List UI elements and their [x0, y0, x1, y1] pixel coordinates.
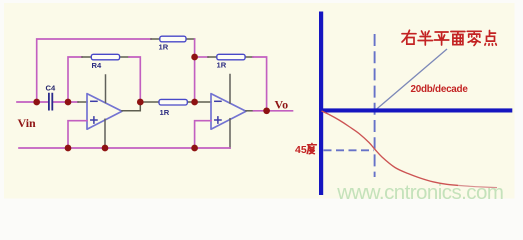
dashed horizontal line at -45deg level: [324, 149, 375, 151]
junction node: opamp2 minus input: [191, 99, 198, 106]
svg-text:1R: 1R: [159, 43, 169, 52]
label: 右半平面零点 (right half plane zero): [402, 30, 496, 45]
svg-text:Vo: Vo: [275, 98, 289, 112]
capacitor C4 plates: [49, 94, 52, 110]
resistor R4 body: [91, 54, 119, 60]
resistor 1R (fb2) leads: [208, 56, 253, 58]
op-amp U1 output stub: [122, 102, 140, 111]
svg-text:1R: 1R: [160, 108, 170, 117]
junction node: fb2 branch: [191, 54, 198, 61]
op-amp U2 power stub bottom: [229, 119, 231, 148]
char 右: [402, 30, 416, 44]
resistor 1R (fb2) body: [217, 54, 245, 60]
wire: input line Vin: [17, 101, 49, 103]
op-amp U1 triangle: [87, 94, 122, 130]
op-amp U2 plus sign: [215, 117, 221, 123]
vertical axis: [319, 12, 323, 196]
opamp2 minus pin stub: [195, 101, 211, 103]
op-amp U2 triangle: [211, 94, 246, 130]
op-amp U1 plus input wire down to rail: [68, 121, 87, 148]
wire: fb2 right corner down to output node: [253, 57, 267, 111]
resistor R4 leads: [82, 56, 129, 58]
wire: node vertical at opamp2 minus: [194, 57, 196, 102]
resistor 1R (series) leads: [140, 101, 194, 103]
junction node: input/outer loop: [33, 99, 40, 106]
op-amp U1 power stub top: [105, 75, 107, 103]
svg-text:C4: C4: [46, 83, 56, 92]
wire: outer feedback left vertical + top row: [37, 39, 151, 102]
op-amp U2 output stub: [246, 110, 254, 112]
svg-text:R4: R4: [92, 61, 102, 70]
content area (cream): [4, 3, 515, 199]
junction node: rail at plus1: [65, 145, 72, 152]
wire: bottom rail: [19, 147, 230, 149]
svg-text:45: 45: [295, 144, 307, 156]
wire: R4 loop left vertical: [68, 57, 82, 102]
op-amp U2 plus input wire down to rail: [195, 121, 211, 148]
resistor 1R (outer feedback) leads: [151, 38, 195, 40]
wire: top row corner down to fb2 node: [194, 39, 196, 57]
wire: fb2 row from node: [195, 56, 208, 58]
wire: after C4 to opamp1: [53, 101, 78, 103]
svg-text:www.cntronics.com: www.cntronics.com: [336, 181, 503, 204]
op-amp U2 minus sign: [215, 100, 221, 102]
junction node: after C4 / R4 branch: [65, 99, 72, 106]
char 平: [434, 32, 448, 45]
junction node: rail at stub1: [102, 145, 109, 152]
resistor 1R (outer feedback) body: [160, 36, 186, 42]
opamp1 minus pin stub: [78, 101, 87, 103]
horizontal axis: [319, 108, 512, 112]
char 半: [418, 31, 432, 45]
junction node: rail at plus2: [191, 145, 198, 152]
dashed vertical line at zero frequency: [374, 34, 376, 177]
phase curve fading tail: [458, 185, 497, 187]
op-amp U1 plus sign: [91, 117, 97, 123]
char 面: [451, 32, 465, 45]
junction node: opamp1 output: [137, 99, 144, 106]
gain slope line (20db/decade): [376, 49, 448, 110]
svg-text:1R: 1R: [217, 61, 227, 70]
op-amp U1 power stub bottom: [104, 119, 106, 148]
resistor 1R (series) body: [159, 99, 187, 105]
junction node: opamp2 output / Vo: [263, 107, 270, 114]
char 点: [485, 31, 496, 46]
svg-text:Vin: Vin: [18, 116, 37, 130]
wire: output to Vo: [254, 110, 293, 112]
char 零: [467, 31, 481, 45]
wire: R4 loop right vertical down to opamp1 output node: [129, 57, 140, 102]
svg-text:20db/decade: 20db/decade: [411, 84, 469, 95]
op-amp U1 minus sign: [91, 100, 97, 102]
op-amp U2 power stub top: [229, 75, 231, 104]
phase curve (red): [322, 111, 459, 185]
